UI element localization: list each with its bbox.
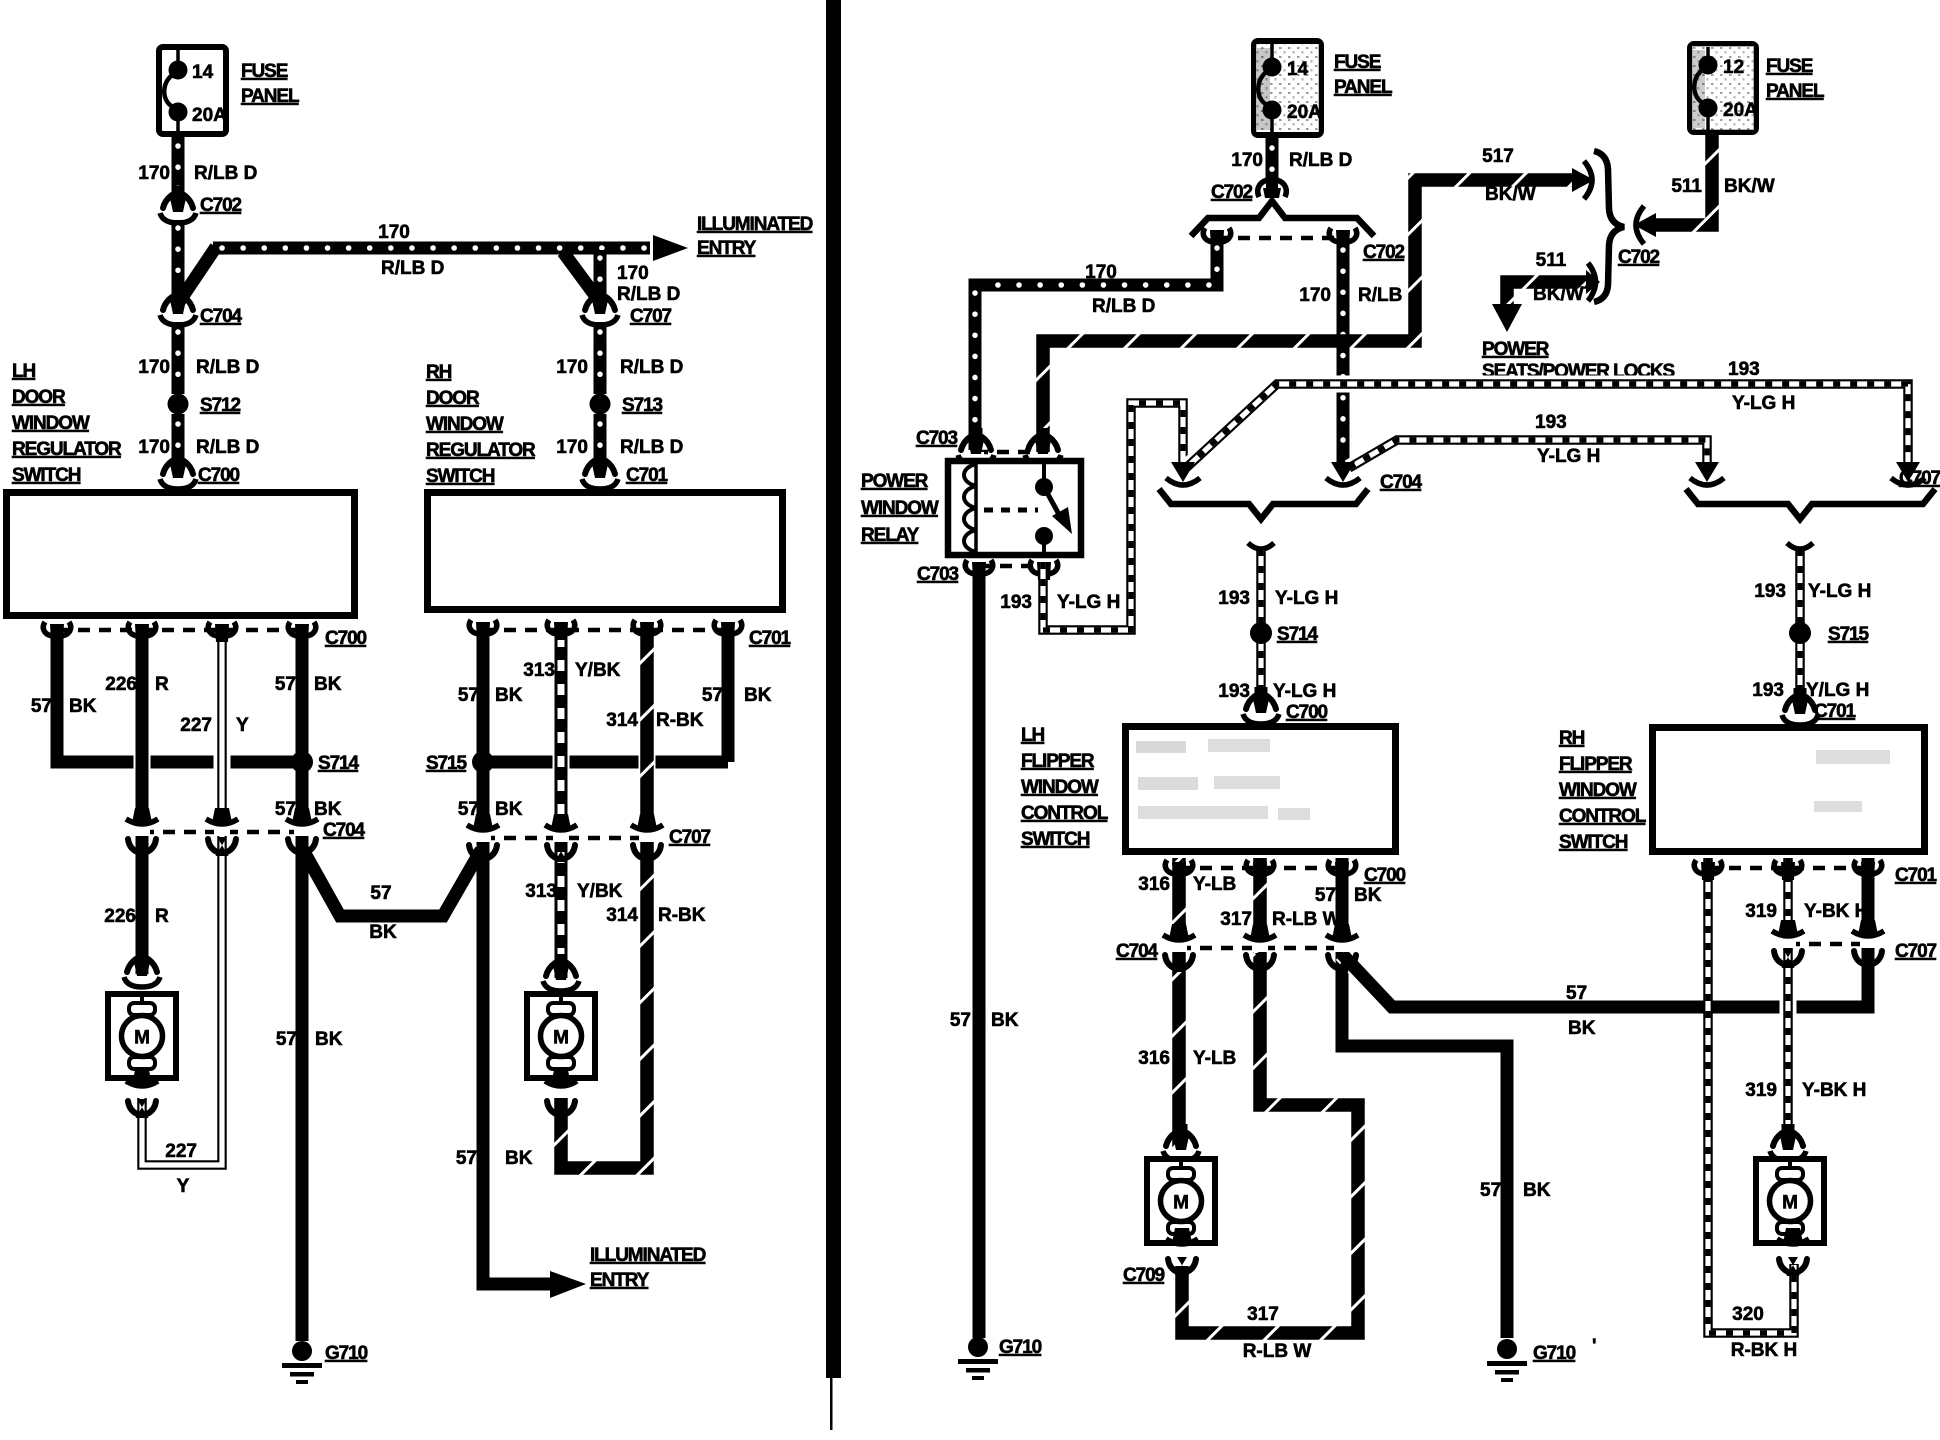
svg-text:R-BK H: R-BK H: [1731, 1340, 1798, 1361]
svg-text:R/LB D: R/LB D: [1092, 296, 1155, 317]
svg-text:LH: LH: [12, 361, 36, 382]
svg-text:226: 226: [105, 674, 137, 695]
svg-text:Y/LG H: Y/LG H: [1806, 680, 1869, 701]
svg-text:193: 193: [1752, 680, 1784, 701]
wire 511 BK/W from fuse F3 into C702 brace: [1634, 134, 1775, 244]
svg-text:C704: C704: [1116, 941, 1159, 962]
connector C704 (left chain): [160, 288, 243, 327]
svg-text:314: 314: [606, 710, 638, 731]
wire 57 BK LH flipper pin3: branch to RH and to ground: [1315, 858, 1551, 1338]
svg-text:170: 170: [138, 437, 170, 458]
svg-text:WINDOW: WINDOW: [1559, 780, 1637, 801]
power window relay label: [861, 471, 939, 546]
splice S714: [291, 751, 360, 774]
svg-text:ILLUMINATED: ILLUMINATED: [590, 1245, 706, 1266]
splice S712: [168, 394, 241, 417]
svg-text:313: 313: [523, 660, 555, 681]
svg-text:170: 170: [1231, 150, 1263, 171]
svg-text:57: 57: [950, 1010, 971, 1031]
power seats/power locks label: [1482, 339, 1674, 382]
svg-text:170: 170: [1085, 262, 1117, 283]
svg-text:REGULATOR: REGULATOR: [12, 439, 122, 460]
svg-text:57: 57: [1566, 983, 1587, 1004]
svg-text:193: 193: [1754, 581, 1786, 602]
svg-text:S715: S715: [1828, 624, 1870, 645]
svg-text:C702: C702: [1618, 247, 1660, 268]
connector line C707 below RH box: [467, 814, 711, 862]
LH box pin 3 wire 227 Y (double line): [142, 630, 249, 1197]
svg-text:ILLUMINATED: ILLUMINATED: [697, 214, 813, 235]
splice S715 (right): [1789, 622, 1870, 645]
svg-text:Y-LB: Y-LB: [1193, 874, 1236, 895]
LH box pin 4 wire 57 BK down to ground: [275, 630, 343, 1341]
svg-text:C707: C707: [630, 306, 672, 327]
svg-text:WINDOW: WINDOW: [426, 414, 504, 435]
connector line C701 below RH box: [469, 620, 791, 649]
svg-text:RELAY: RELAY: [861, 525, 920, 546]
svg-text:Y-LG H: Y-LG H: [1732, 393, 1795, 414]
svg-text:Y: Y: [236, 715, 249, 736]
svg-text:170: 170: [138, 357, 170, 378]
RH flipper motor: [1756, 1124, 1824, 1276]
wire 511 BK/W from C702 brace to power seats arrow: [1492, 250, 1600, 332]
svg-text:C700: C700: [1364, 865, 1406, 886]
svg-text:PANEL: PANEL: [1766, 81, 1825, 102]
fuse panel F1 (left): [159, 47, 227, 134]
svg-text:C701: C701: [1814, 701, 1857, 722]
wire 170 R/LB D from fuse F1 to C702: [138, 136, 257, 200]
svg-text:193: 193: [1218, 681, 1250, 702]
svg-text:C703: C703: [916, 428, 958, 449]
wire 193 Y-LG H short run C704 to C707: [1349, 412, 1707, 468]
connector C700 above LH box: [160, 452, 240, 489]
svg-text:CONTROL: CONTROL: [1559, 806, 1647, 827]
svg-text:316: 316: [1138, 1048, 1170, 1069]
LH flipper motor: [1147, 1124, 1215, 1276]
wire 193 Y-LG H relay to C704 cup: [1000, 403, 1183, 630]
svg-text:BK: BK: [495, 685, 523, 706]
svg-text:319: 319: [1745, 901, 1777, 922]
svg-text:Y-LG H: Y-LG H: [1057, 592, 1120, 613]
svg-text:57: 57: [275, 799, 296, 820]
connector C702 arrow into bracket: [1211, 174, 1286, 203]
svg-text:C701: C701: [626, 465, 669, 486]
splice S713: [590, 394, 663, 417]
svg-text:Y/BK: Y/BK: [575, 660, 621, 681]
connector C701 above RH box: [582, 452, 669, 489]
svg-text:BK: BK: [1523, 1180, 1551, 1201]
svg-text:57: 57: [275, 674, 296, 695]
arrow to illuminated entry (top): [653, 235, 688, 261]
svg-text:319: 319: [1745, 1080, 1777, 1101]
RH window motor: [527, 954, 595, 1118]
LH window motor: [108, 950, 176, 1118]
svg-text:R-BK: R-BK: [658, 905, 706, 926]
svg-text:317: 317: [1220, 909, 1252, 930]
svg-text:14: 14: [192, 62, 214, 83]
wire 170 to C700: [138, 414, 259, 468]
svg-text:C700: C700: [1286, 702, 1328, 723]
wire 170 R/LB D: C702 to C704 with branch to illuminated entry: [178, 220, 650, 302]
connector line C701 below RH flipper box: [1694, 860, 1937, 886]
svg-text:57: 57: [702, 685, 723, 706]
svg-text:170: 170: [378, 222, 410, 243]
svg-text:57: 57: [456, 1148, 477, 1169]
LH door window regulator switch box: [7, 493, 355, 616]
svg-text:C702: C702: [200, 195, 242, 216]
svg-text:G710: G710: [325, 1343, 368, 1364]
svg-text:BK: BK: [505, 1148, 533, 1169]
svg-text:S715: S715: [426, 753, 468, 774]
svg-text:R/LB D: R/LB D: [196, 357, 259, 378]
svg-text:R/LB D: R/LB D: [620, 357, 683, 378]
svg-text:R/LB D: R/LB D: [617, 284, 680, 305]
wire 319 Y-BK H RH flipper pin2 to motor: [1745, 858, 1868, 1148]
divider thin tail: [830, 1378, 833, 1430]
LH box pin 1 wire 57 BK to S714: [31, 630, 296, 762]
connector C703 (top of relay): [916, 428, 1061, 465]
svg-text:C709: C709: [1123, 1265, 1165, 1286]
svg-text:FLIPPER: FLIPPER: [1559, 754, 1633, 775]
svg-text:317: 317: [1247, 1304, 1279, 1325]
svg-text:C700: C700: [325, 628, 367, 649]
svg-text:FUSE: FUSE: [1334, 52, 1381, 73]
svg-text:C704: C704: [323, 820, 366, 841]
svg-text:DOOR: DOOR: [426, 388, 480, 409]
fuse panel F3 (right): [1690, 44, 1758, 132]
svg-text:BK: BK: [991, 1010, 1019, 1031]
RH door window regulator switch label: [426, 362, 536, 487]
connector line C704 below LH box: [126, 808, 366, 856]
svg-text:Y-LG H: Y-LG H: [1537, 446, 1600, 467]
connector C703 (bottom of relay): [917, 560, 1058, 585]
svg-text:PANEL: PANEL: [241, 86, 300, 107]
svg-text:C700: C700: [198, 465, 240, 486]
arrow to illuminated entry (bottom): [550, 1271, 586, 1298]
svg-text:ENTRY: ENTRY: [697, 238, 757, 259]
svg-text:Y-BK H: Y-BK H: [1802, 1080, 1866, 1101]
wire 170 to S713: [556, 322, 683, 394]
svg-text:C704: C704: [1380, 472, 1423, 493]
svg-text:320: 320: [1732, 1304, 1764, 1325]
svg-text:C701: C701: [1895, 865, 1938, 886]
svg-text:G710: G710: [1533, 1343, 1576, 1364]
svg-text:R/LB D: R/LB D: [1289, 150, 1352, 171]
svg-text:WINDOW: WINDOW: [1021, 777, 1099, 798]
LH box pin 2 wire 226 R: [104, 630, 169, 974]
divider bar: [826, 0, 841, 1378]
svg-text:193: 193: [1728, 359, 1760, 380]
RH box pin 1 wire 57 BK down to illuminated entry: [456, 630, 552, 1284]
svg-text:SWITCH: SWITCH: [12, 465, 81, 486]
svg-text:Y-LG H: Y-LG H: [1808, 581, 1871, 602]
svg-text:517: 517: [1482, 146, 1514, 167]
RH flipper window control switch box: [1653, 728, 1925, 852]
big connector cup C704: [1159, 462, 1423, 519]
connector line C707 below RH flipper box: [1772, 920, 1937, 968]
ground G710 (switches): [1487, 1336, 1597, 1382]
svg-text:R: R: [155, 674, 169, 695]
svg-text:57: 57: [370, 883, 391, 904]
RH box pin 2 wire 313 Y/BK: [523, 630, 622, 978]
svg-text:FUSE: FUSE: [241, 61, 288, 82]
svg-text:511: 511: [1536, 250, 1567, 271]
svg-text:SWITCH: SWITCH: [1559, 832, 1628, 853]
power window relay U1: [948, 461, 1081, 555]
svg-text:R: R: [155, 906, 169, 927]
svg-text:C707: C707: [1895, 941, 1937, 962]
LH door window regulator switch label: [12, 361, 122, 486]
svg-text:170: 170: [556, 437, 588, 458]
ground G710 (left): [282, 1341, 368, 1384]
connector line C704 below LH flipper box: [1116, 924, 1358, 972]
svg-text:20A: 20A: [192, 105, 227, 126]
svg-text:227: 227: [165, 1141, 197, 1162]
svg-text:C701: C701: [749, 628, 792, 649]
svg-text:Y-BK H: Y-BK H: [1804, 901, 1868, 922]
svg-text:20A: 20A: [1723, 100, 1758, 121]
svg-text:BK: BK: [495, 799, 523, 820]
svg-text:170: 170: [138, 163, 170, 184]
svg-text:57: 57: [31, 696, 52, 717]
wire 320 R-BK H RH flipper pin1 to motor bottom: [1708, 858, 1797, 1361]
svg-text:S714: S714: [1277, 624, 1319, 645]
fuse panel F1 label: [241, 61, 300, 107]
svg-text:Y-LB: Y-LB: [1193, 1048, 1236, 1069]
wire 57 BK relay to ground: [950, 562, 1019, 1338]
splice S714 (right): [1250, 622, 1319, 645]
wire 317 R-LB W LH flipper pin2 to motor bottom: [1182, 858, 1358, 1362]
big connector cup C707: [1686, 462, 1940, 519]
svg-text:S713: S713: [622, 395, 663, 416]
svg-text:': ': [1592, 1336, 1597, 1357]
svg-text:FLIPPER: FLIPPER: [1021, 751, 1095, 772]
wire 193 Y-LG H long run C704 to C707: [1186, 359, 1908, 468]
wire 170 R/LB D fuse F2 to C702: [1231, 138, 1352, 182]
illuminated entry label (top): [697, 214, 813, 259]
svg-text:LH: LH: [1021, 725, 1045, 746]
svg-text:SWITCH: SWITCH: [426, 466, 495, 487]
svg-text:SWITCH: SWITCH: [1021, 829, 1090, 850]
svg-text:PANEL: PANEL: [1334, 77, 1393, 98]
svg-text:57: 57: [1480, 1180, 1501, 1201]
svg-text:R/LB D: R/LB D: [620, 437, 683, 458]
svg-text:DOOR: DOOR: [12, 387, 66, 408]
svg-text:RH: RH: [426, 362, 452, 383]
LH flipper window control switch box: [1126, 727, 1396, 852]
svg-text:Y-LG H: Y-LG H: [1273, 681, 1336, 702]
svg-text:R/LB D: R/LB D: [194, 163, 257, 184]
svg-text:511: 511: [1671, 176, 1702, 197]
svg-text:BK/W: BK/W: [1533, 284, 1584, 305]
svg-text:POWER: POWER: [1482, 339, 1550, 360]
svg-text:R/LB D: R/LB D: [196, 437, 259, 458]
svg-text:Y-LG H: Y-LG H: [1275, 588, 1338, 609]
fuse panel F2 label: [1334, 52, 1393, 98]
svg-text:G710: G710: [999, 1337, 1042, 1358]
C702 brace (right): [1594, 151, 1660, 302]
ground G710 (relay): [958, 1337, 1042, 1380]
fuse panel F2 (middle): [1254, 41, 1322, 135]
svg-text:FUSE: FUSE: [1766, 56, 1813, 77]
svg-text:193: 193: [1218, 588, 1250, 609]
svg-text:12: 12: [1723, 57, 1744, 78]
C702 wide bracket: [1191, 201, 1405, 263]
wire 193 from C707 cup to RH flipper switch: [1752, 543, 1871, 714]
svg-text:170: 170: [1299, 285, 1331, 306]
svg-text:170: 170: [617, 263, 649, 284]
svg-text:C704: C704: [200, 306, 243, 327]
svg-text:S712: S712: [200, 395, 241, 416]
svg-text:POWER: POWER: [861, 471, 929, 492]
svg-text:BK: BK: [1568, 1018, 1596, 1039]
svg-text:193: 193: [1535, 412, 1567, 433]
svg-text:57: 57: [276, 1029, 297, 1050]
svg-text:BK: BK: [744, 685, 772, 706]
wire 170 R/LB D from C702 left pin to relay C703: [975, 240, 1217, 450]
svg-text:20A: 20A: [1287, 102, 1322, 123]
connector line C700 below LH box: [43, 622, 366, 649]
svg-text:57: 57: [458, 685, 479, 706]
connector C702 (left): [160, 186, 242, 223]
splice S715 with wire to pin4: [426, 751, 728, 774]
svg-text:BK: BK: [69, 696, 97, 717]
wire 517 BK/W from relay to C702 half: [1043, 146, 1594, 452]
svg-text:227: 227: [180, 715, 212, 736]
svg-text:BK: BK: [314, 674, 342, 695]
svg-text:C702: C702: [1363, 242, 1405, 263]
svg-text:CONTROL: CONTROL: [1021, 803, 1109, 824]
fuse panel F3 label: [1766, 56, 1825, 102]
svg-text:314: 314: [606, 905, 638, 926]
RH box pin 4 wire 57 BK: [702, 630, 772, 762]
wire 170 to C701: [556, 414, 683, 468]
svg-text:Y: Y: [177, 1176, 190, 1197]
svg-text:C702: C702: [1211, 182, 1253, 203]
svg-text:BK/W: BK/W: [1724, 176, 1775, 197]
svg-text:170: 170: [556, 357, 588, 378]
svg-text:S714: S714: [318, 753, 360, 774]
svg-text:BK: BK: [369, 922, 397, 943]
svg-text:REGULATOR: REGULATOR: [426, 440, 536, 461]
RH flipper window control switch label: [1559, 728, 1647, 853]
svg-text:226: 226: [104, 906, 136, 927]
svg-text:BK/W: BK/W: [1485, 184, 1536, 205]
RH box pin 3 wire 314 R-BK with motor loop: [561, 630, 706, 1168]
connector line C700 below LH flipper box: [1165, 860, 1405, 886]
wire 57 BK RH flipper pin3: [1862, 858, 1875, 960]
svg-text:Y/BK: Y/BK: [577, 881, 623, 902]
LH flipper window control switch label: [1021, 725, 1109, 850]
wire 57 BK bar to RH flipper switch: [1342, 950, 1868, 1039]
svg-text:193: 193: [1000, 592, 1032, 613]
svg-text:R-BK: R-BK: [656, 710, 704, 731]
svg-text:BK: BK: [315, 1029, 343, 1050]
branch 57 BK from LH C704 to RH C707: [302, 848, 481, 943]
svg-text:57: 57: [1315, 885, 1336, 906]
svg-text:C703: C703: [917, 564, 959, 585]
svg-text:C707: C707: [669, 827, 711, 848]
wire 316 Y-LB LH flipper pin1 to motor: [1138, 858, 1236, 1148]
svg-text:R-LB W: R-LB W: [1272, 909, 1341, 930]
connector C707 (upper): [582, 288, 672, 327]
RH door window regulator switch box: [428, 493, 783, 610]
connector C700 above LH flipper box: [1243, 687, 1328, 724]
svg-text:BK: BK: [314, 799, 342, 820]
svg-text:WINDOW: WINDOW: [861, 498, 939, 519]
wire 193 Y-LG H from C704 cup to LH flipper switch: [1218, 543, 1338, 713]
svg-text:316: 316: [1138, 874, 1170, 895]
illuminated entry label (bottom): [590, 1245, 706, 1291]
svg-text:313: 313: [525, 881, 557, 902]
svg-text:WINDOW: WINDOW: [12, 413, 90, 434]
svg-text:R/LB D: R/LB D: [381, 258, 444, 279]
svg-text:ENTRY: ENTRY: [590, 1270, 650, 1291]
svg-text:C707: C707: [1899, 468, 1940, 489]
connector C701 above RH flipper box: [1782, 688, 1857, 725]
wire 170 R/LB D from C702 right pin down to C704 cup: [1299, 240, 1421, 466]
wire 170 to S712: [138, 322, 259, 394]
label 170 R/LB D above C707: [617, 263, 680, 305]
svg-text:RH: RH: [1559, 728, 1585, 749]
svg-text:14: 14: [1287, 59, 1309, 80]
svg-text:R-LB W: R-LB W: [1243, 1341, 1312, 1362]
svg-text:BK: BK: [1354, 885, 1382, 906]
